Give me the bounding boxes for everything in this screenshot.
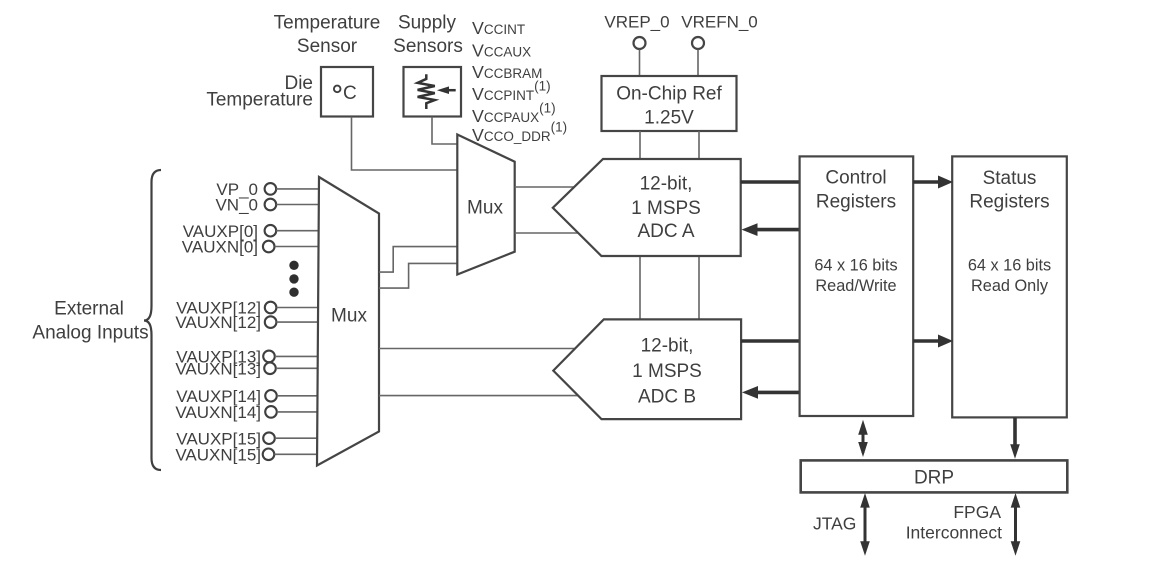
- svg-text:1.25V: 1.25V: [644, 108, 694, 129]
- wire ADC A to ADC B left: [639, 256, 641, 319]
- pin circle VAUXN[0]: [263, 241, 275, 253]
- svg-text:Registers: Registers: [816, 192, 896, 213]
- ADC A block: [553, 159, 741, 256]
- supply sensors block: [404, 67, 462, 117]
- pin circle VAUXP[12]: [265, 302, 277, 314]
- sensor mux (upper): [457, 135, 514, 275]
- svg-text:C: C: [343, 83, 357, 104]
- bus control registers to ADC A (arrow): [742, 223, 800, 236]
- wire sensor mux to ADC A lower: [515, 232, 579, 234]
- wire VAUXP[12] to mux: [276, 307, 319, 309]
- svg-text:Analog Inputs: Analog Inputs: [32, 323, 148, 344]
- pin circle VAUXP[14]: [265, 390, 277, 402]
- svg-text:VAUXN[14]: VAUXN[14]: [175, 403, 261, 422]
- ADC B block: [553, 319, 741, 419]
- svg-text:Temperature: Temperature: [274, 13, 381, 34]
- DRP block: [801, 460, 1068, 492]
- wire ref to ADC A right: [698, 131, 700, 159]
- svg-text:Control: Control: [825, 168, 886, 189]
- wire VREP_0 to ref: [639, 50, 641, 77]
- wire big mux to sensor mux A: [379, 247, 457, 273]
- svg-text:Temperature: Temperature: [206, 90, 313, 111]
- svg-text:External: External: [54, 299, 124, 320]
- pin circle VAUXN[15]: [263, 449, 275, 461]
- svg-text:VN_0: VN_0: [215, 196, 258, 215]
- sense arrow: [437, 86, 456, 94]
- svg-text:12-bit,: 12-bit,: [641, 336, 694, 357]
- bus control to status upper (arrow): [913, 176, 953, 189]
- svg-text:1 MSPS: 1 MSPS: [631, 198, 701, 219]
- pin circle VAUXN[12]: [265, 316, 277, 328]
- bus control to DRP (double arrow): [858, 420, 868, 457]
- svg-text:Read Only: Read Only: [971, 277, 1049, 295]
- wire big mux to ADC B lower: [379, 395, 578, 397]
- bus control to status lower (arrow): [913, 335, 953, 348]
- pin circle VN_0: [265, 199, 277, 211]
- pin circle VAUXP[0]: [265, 225, 277, 237]
- svg-text:Interconnect: Interconnect: [906, 523, 1002, 543]
- svg-text:VAUXN[15]: VAUXN[15]: [175, 446, 261, 465]
- svg-text:ADC A: ADC A: [637, 221, 694, 242]
- wire VAUXN[0] to mux: [275, 246, 320, 248]
- svg-text:Mux: Mux: [467, 198, 503, 219]
- svg-text:JTAG: JTAG: [813, 514, 856, 534]
- wire big mux to sensor mux B: [379, 263, 457, 288]
- svg-text:64 x 16 bits: 64 x 16 bits: [814, 256, 897, 274]
- FPGA interconnect port (double arrow): [1011, 493, 1021, 556]
- bus control registers to ADC B (arrow): [742, 386, 800, 399]
- wire VAUXN[13] to mux: [276, 367, 319, 369]
- label Die Temperature: [206, 73, 313, 111]
- label FPGA Interconnect: [906, 502, 1002, 543]
- svg-text:Status: Status: [983, 168, 1037, 189]
- brace external analog inputs: [144, 170, 161, 470]
- wire VAUXP[14] to mux: [277, 395, 319, 397]
- wire ref to ADC A left: [639, 131, 641, 159]
- svg-text:VREFN_0: VREFN_0: [681, 13, 758, 32]
- ellipsis dots: [289, 261, 298, 297]
- wire VAUXP[15] to mux: [275, 437, 319, 439]
- wire big mux to ADC B upper: [379, 348, 575, 350]
- label Temperature Sensor: [274, 13, 381, 58]
- svg-text:64 x 16 bits: 64 x 16 bits: [968, 256, 1051, 274]
- wire VAUXN[15] to mux: [274, 453, 319, 455]
- svg-text:VAUXN[13]: VAUXN[13]: [175, 360, 261, 379]
- analog input mux (big): [317, 177, 379, 466]
- bus ADC A to control registers: [741, 180, 800, 184]
- bus status to DRP (arrow down): [1010, 418, 1020, 459]
- temperature sensor block: [321, 67, 373, 117]
- svg-text:FPGA: FPGA: [953, 502, 1001, 522]
- svg-text:DRP: DRP: [914, 468, 954, 489]
- svg-text:1 MSPS: 1 MSPS: [632, 361, 702, 382]
- svg-text:Supply: Supply: [398, 13, 457, 34]
- wire VN_0 to mux: [276, 204, 319, 206]
- pin circle VAUXP[13]: [263, 351, 275, 363]
- svg-text:Mux: Mux: [331, 306, 367, 327]
- wire supply sensors to mux: [432, 117, 457, 144]
- wire VREFN_0 to ref: [697, 50, 699, 77]
- svg-text:Registers: Registers: [969, 192, 1049, 213]
- on-chip reference block U-ref: [602, 76, 737, 131]
- wire VAUXN[14] to mux: [277, 411, 319, 413]
- svg-text:Read/Write: Read/Write: [815, 277, 896, 295]
- label Supply Sensors: [393, 13, 463, 58]
- pin circle VREP_0: [634, 37, 646, 49]
- svg-text:ADC B: ADC B: [638, 387, 696, 408]
- svg-text:12-bit,: 12-bit,: [640, 174, 693, 195]
- svg-text:VREP_0: VREP_0: [604, 13, 669, 32]
- pin circle VP_0: [265, 183, 277, 195]
- svg-text:VAUXN[12]: VAUXN[12]: [175, 313, 261, 332]
- svg-text:VAUXN[0]: VAUXN[0]: [182, 238, 258, 257]
- JTAG port (double arrow): [860, 493, 870, 556]
- pin circle VAUXN[13]: [264, 363, 276, 375]
- wire ADC A to ADC B right: [698, 256, 700, 319]
- wire VAUXP[0] to mux: [276, 230, 319, 232]
- wire sensor mux to ADC A upper: [515, 186, 575, 188]
- wire VAUXP[13] to mux: [275, 355, 319, 357]
- svg-text:On-Chip Ref: On-Chip Ref: [616, 84, 722, 105]
- resistor symbol: [418, 74, 435, 109]
- status registers block: [952, 156, 1067, 417]
- wire temperature sensor to mux: [352, 117, 458, 170]
- wire VAUXN[12] to mux: [276, 321, 319, 323]
- svg-text:Sensor: Sensor: [297, 36, 358, 57]
- pin circle VREFN_0: [692, 37, 704, 49]
- pin circle VAUXN[14]: [265, 406, 277, 418]
- control registers block: [800, 156, 914, 416]
- svg-text:Sensors: Sensors: [393, 36, 463, 57]
- label External Analog Inputs: [32, 299, 148, 344]
- bus ADC B to control registers: [741, 339, 800, 343]
- pin circle VAUXP[15]: [263, 432, 275, 444]
- wire VP_0 to mux: [276, 188, 319, 190]
